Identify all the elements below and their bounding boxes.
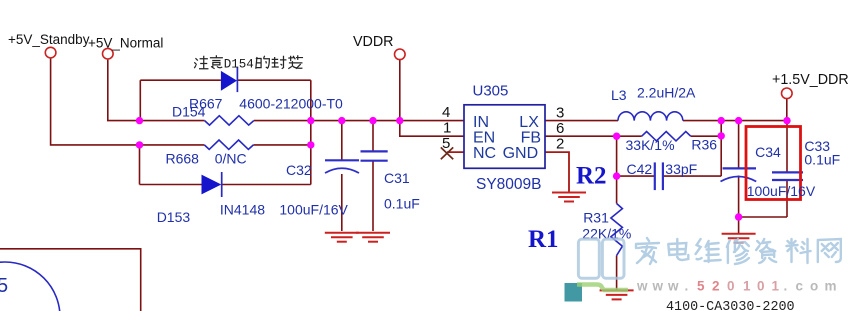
char 意 bbox=[210, 55, 223, 69]
svg-text:0.1uF: 0.1uF bbox=[384, 196, 420, 212]
wire ground stem under node bbox=[738, 217, 740, 234]
logo right page bbox=[602, 239, 624, 278]
node loop right mid bbox=[307, 141, 314, 148]
svg-text:D154: D154 bbox=[224, 58, 254, 72]
wire C42 right lead bbox=[663, 175, 721, 177]
wire C34 bottom stub to ground node bbox=[738, 176, 740, 218]
svg-text:U305: U305 bbox=[473, 83, 509, 100]
svg-text:VDDR: VDDR bbox=[353, 34, 394, 50]
wire R668 branch bbox=[140, 144, 311, 146]
svg-text:+5V_Normal: +5V_Normal bbox=[88, 36, 163, 51]
wire vertical right of R36/C42 bbox=[720, 121, 722, 177]
node C32 tap bbox=[338, 117, 345, 124]
svg-text:3: 3 bbox=[556, 105, 564, 122]
svg-text:C31: C31 bbox=[384, 170, 410, 186]
svg-text:1: 1 bbox=[443, 120, 451, 137]
resistor R668 bbox=[204, 140, 253, 149]
capacitor C31 bbox=[361, 151, 388, 160]
svg-text:2.2uH/2A: 2.2uH/2A bbox=[637, 85, 696, 101]
svg-text:.: . bbox=[685, 279, 689, 294]
wire main line IN rail bbox=[140, 120, 465, 122]
svg-text:5: 5 bbox=[442, 135, 450, 152]
svg-text:6: 6 bbox=[556, 120, 564, 137]
char 封 bbox=[272, 56, 287, 69]
node C31 tap bbox=[369, 117, 376, 124]
svg-text:NC: NC bbox=[473, 145, 496, 162]
char 维 bbox=[696, 239, 721, 262]
node VDDR/EN tap bbox=[396, 117, 403, 124]
svg-text:2: 2 bbox=[712, 279, 720, 294]
svg-text:R2: R2 bbox=[576, 163, 607, 190]
capacitor C42 bbox=[655, 162, 663, 190]
node +1.5V_DDR terminal bbox=[782, 88, 793, 99]
wire C33 top stub bbox=[786, 121, 788, 173]
node +5V_Standby terminal bbox=[45, 47, 56, 58]
node FB junction bbox=[613, 133, 620, 140]
wire VDDR stub bbox=[399, 60, 401, 121]
wire ground node horizontal bbox=[739, 216, 787, 218]
svg-text:GND: GND bbox=[503, 145, 539, 162]
wire GND stub pin2 bbox=[545, 152, 569, 192]
wire partial block border bbox=[0, 249, 141, 311]
wire NC stub pin5 bbox=[447, 151, 464, 153]
svg-text:w: w bbox=[667, 279, 679, 294]
svg-text:+5V_Standby: +5V_Standby bbox=[8, 32, 90, 47]
wire R31 bottom stem bbox=[616, 256, 618, 291]
no-connect X on pin 5 bbox=[441, 147, 453, 159]
svg-text:w: w bbox=[652, 279, 664, 294]
svg-text:R36: R36 bbox=[691, 136, 717, 152]
resistor R667 bbox=[205, 116, 254, 125]
diode D154 bbox=[221, 67, 238, 92]
wire +1.5V_DDR stub bbox=[786, 98, 788, 120]
wire C32 stub bbox=[341, 121, 343, 231]
wire LX to L3 bbox=[545, 120, 618, 122]
node main/normal junction bbox=[136, 117, 143, 124]
node C42 junction bbox=[613, 172, 620, 179]
svg-text:0.1uF: 0.1uF bbox=[804, 151, 840, 167]
char 电 bbox=[668, 239, 688, 260]
wire D153 branch bbox=[140, 184, 311, 186]
svg-text:100uF/16V: 100uF/16V bbox=[279, 202, 348, 218]
svg-text:4100-CA3030-2200: 4100-CA3030-2200 bbox=[666, 300, 795, 311]
svg-text:R668: R668 bbox=[166, 151, 200, 167]
node +5V_Normal terminal bbox=[103, 48, 114, 59]
wire top loop right vertical bbox=[310, 80, 312, 184]
svg-text:0: 0 bbox=[727, 279, 735, 294]
wire C34 top stub bbox=[738, 121, 740, 169]
svg-text:5: 5 bbox=[697, 279, 705, 294]
COMPONENTS (blue) bbox=[204, 112, 690, 256]
svg-text:C34: C34 bbox=[755, 144, 781, 160]
wire FB to node bbox=[545, 135, 642, 137]
wire R36 right lead bbox=[691, 135, 722, 137]
svg-text:FB: FB bbox=[521, 129, 541, 146]
svg-text:D153: D153 bbox=[157, 209, 191, 225]
svg-text:33pF: 33pF bbox=[665, 161, 697, 177]
ground R31 bbox=[600, 290, 634, 299]
svg-text:5: 5 bbox=[0, 275, 8, 297]
svg-text:EN: EN bbox=[473, 129, 495, 146]
char 资 bbox=[756, 239, 776, 263]
node VDDR terminal bbox=[395, 49, 406, 60]
diode D153 bbox=[202, 172, 222, 197]
capacitor C33 bbox=[772, 172, 803, 180]
svg-text:+1.5V_DDR: +1.5V_DDR bbox=[772, 72, 849, 88]
svg-text:c: c bbox=[796, 279, 804, 294]
logo green swoosh bbox=[577, 285, 628, 291]
node C34 ground bbox=[735, 213, 742, 220]
www.520101.com line bbox=[636, 279, 837, 294]
resistor R36 bbox=[642, 132, 691, 141]
op-amp U305 body box bbox=[464, 105, 545, 169]
svg-text:0: 0 bbox=[757, 279, 765, 294]
wire EN branch bbox=[400, 121, 464, 137]
node loop right top bbox=[307, 117, 314, 124]
svg-text:C42: C42 bbox=[627, 161, 653, 177]
wire C31 stub bbox=[372, 121, 374, 231]
U305 pin stubs bbox=[447, 152, 569, 192]
ground C34 node bbox=[722, 234, 756, 243]
svg-text:w: w bbox=[636, 279, 648, 294]
svg-text:D154: D154 bbox=[172, 104, 206, 120]
svg-text:4600-212000-T0: 4600-212000-T0 bbox=[239, 96, 343, 112]
ground C31 bbox=[356, 233, 390, 242]
char 家 bbox=[636, 238, 659, 264]
resistor R31 bbox=[611, 204, 623, 256]
svg-text:R1: R1 bbox=[528, 226, 559, 253]
wire D154 top branch bbox=[140, 79, 310, 81]
wire bottom loop left vertical bbox=[139, 145, 141, 185]
WATERMARK bbox=[565, 238, 841, 302]
wire C33 bottom vertical bbox=[786, 180, 788, 217]
logo teal square bbox=[565, 283, 583, 302]
note 注意D154的封装 (hand-drawn CJK) bbox=[194, 55, 303, 71]
svg-text:100uF/16V: 100uF/16V bbox=[747, 183, 816, 199]
ground C32 bbox=[325, 233, 359, 242]
svg-text:0/NC: 0/NC bbox=[215, 151, 247, 167]
node partial arc bbox=[0, 262, 60, 311]
char 修 bbox=[727, 239, 749, 264]
char 装 bbox=[288, 55, 303, 69]
svg-text:1: 1 bbox=[772, 279, 780, 294]
svg-text:L3: L3 bbox=[611, 87, 627, 103]
svg-text:33K/1%: 33K/1% bbox=[626, 137, 675, 153]
node rail/C34 bbox=[735, 117, 742, 124]
wire top loop left vertical bbox=[139, 80, 141, 120]
node standby/R668 junction bbox=[136, 141, 143, 148]
capacitor C32 (electrolytic) bbox=[325, 160, 359, 173]
capacitor C34 (electrolytic) bbox=[721, 168, 757, 181]
wire +5V_Normal down and right to main node bbox=[108, 60, 140, 121]
node R36 right junction bbox=[718, 132, 725, 139]
svg-text:1: 1 bbox=[743, 279, 751, 294]
svg-text:IN4148: IN4148 bbox=[220, 202, 265, 218]
svg-text:.: . bbox=[784, 279, 788, 294]
wire +5V_Standby down and right to R668 loop bbox=[51, 58, 140, 145]
wire C42 left branch bbox=[617, 136, 655, 203]
node rail/R36 vertical bbox=[718, 117, 725, 124]
svg-text:o: o bbox=[810, 279, 818, 294]
svg-text:R31: R31 bbox=[583, 210, 609, 226]
watermark chars 家电维修资料网 bbox=[636, 238, 841, 264]
inductor L3 bbox=[618, 112, 683, 121]
bottom-left partial block bbox=[0, 249, 141, 311]
char 料 bbox=[787, 239, 811, 263]
char 网 bbox=[818, 239, 841, 262]
ground U305 GND bbox=[552, 193, 586, 202]
svg-text:SY8009B: SY8009B bbox=[476, 176, 542, 193]
char 注 bbox=[194, 56, 208, 69]
wire output rail after L3 bbox=[683, 120, 787, 122]
red highlight box around C34 bbox=[746, 127, 801, 200]
node rail/C33/DDR bbox=[783, 117, 790, 124]
svg-text:2: 2 bbox=[556, 136, 564, 153]
svg-text:C32: C32 bbox=[286, 162, 312, 178]
char 的 bbox=[256, 56, 270, 69]
svg-text:4: 4 bbox=[442, 104, 450, 121]
svg-text:m: m bbox=[825, 279, 837, 294]
logo left page bbox=[578, 239, 599, 278]
